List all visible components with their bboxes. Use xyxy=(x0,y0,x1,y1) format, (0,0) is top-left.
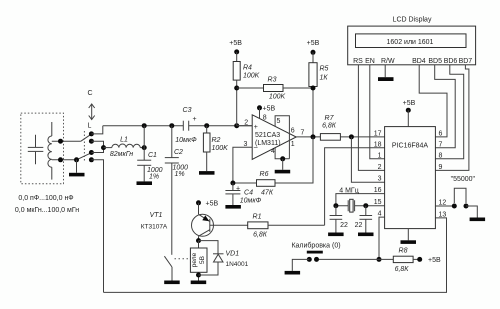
terminal +5V VT1 xyxy=(196,200,201,205)
mechanical link dashed SA1 xyxy=(83,131,85,161)
node rail C2 xyxy=(169,123,174,128)
svg-text:1602 или 1601: 1602 или 1601 xyxy=(387,39,434,46)
capacitor C4 xyxy=(225,183,240,205)
ground (switch pole2) xyxy=(69,173,85,177)
svg-text:4: 4 xyxy=(271,148,275,155)
svg-text:1N4001: 1N4001 xyxy=(226,261,249,268)
button SB1 Kalibrovka xyxy=(292,251,323,271)
resistor R2 xyxy=(203,126,210,171)
wire top rail right of C3 xyxy=(189,125,253,127)
svg-text:6,8К: 6,8К xyxy=(395,266,410,273)
DUT dashed box xyxy=(21,113,64,184)
node relay bottom xyxy=(196,273,201,278)
svg-text:17: 17 xyxy=(374,130,382,137)
svg-text:C4: C4 xyxy=(244,190,253,197)
svg-text:5В: 5В xyxy=(199,256,206,264)
capacitor C5 22pF left xyxy=(330,206,343,233)
node output xyxy=(311,134,316,139)
node contact T1 xyxy=(89,131,94,136)
wire Cx to switch pole 1 xyxy=(52,140,81,142)
wire R1 to PIC pin 18 xyxy=(325,148,385,226)
wire PIC pin12 xyxy=(435,205,454,207)
svg-text:1: 1 xyxy=(378,152,382,159)
svg-text:L: L xyxy=(88,123,92,130)
ground (relay) xyxy=(191,281,207,285)
resistor R5 xyxy=(309,52,317,137)
resistor R8 xyxy=(393,256,419,262)
mechanical link dotted relay xyxy=(175,258,191,260)
capacitor C1 xyxy=(137,126,151,182)
svg-text:+5В: +5В xyxy=(307,40,320,47)
svg-text:7: 7 xyxy=(301,130,305,137)
wire bottom rail to PIC pin 13 xyxy=(104,218,447,293)
svg-text:R1: R1 xyxy=(253,214,262,221)
comparator balance pins 5,6 and gnd pins 1,4 xyxy=(275,116,289,159)
wire Lx to switch pole 2 xyxy=(52,159,77,161)
wire jumper to ground xyxy=(466,206,477,218)
svg-text:R/W: R/W xyxy=(381,58,395,65)
svg-text:C2: C2 xyxy=(174,149,183,156)
svg-text:BD7: BD7 xyxy=(459,58,473,65)
svg-text:2: 2 xyxy=(244,120,248,127)
resistor R1 xyxy=(248,222,325,229)
ground (C6) xyxy=(358,233,374,237)
svg-text:521СА3: 521СА3 xyxy=(255,132,280,139)
svg-text:3: 3 xyxy=(244,141,248,148)
node R4/R3 xyxy=(234,86,239,91)
resistor R3 xyxy=(237,85,313,92)
capacitor C3 (series) xyxy=(183,121,188,131)
node R7 right xyxy=(349,134,354,139)
wire PIC pin5 to ground xyxy=(407,229,409,241)
ground (R2) xyxy=(199,171,215,175)
wire EN to PIC pin 1 xyxy=(370,65,385,159)
svg-text:R5: R5 xyxy=(320,66,329,73)
inductor Lx (device under test) xyxy=(48,122,52,180)
svg-text:R3: R3 xyxy=(268,77,277,84)
ground (PIC pin5) xyxy=(401,240,417,244)
svg-text:12: 12 xyxy=(439,200,447,207)
svg-text:1%: 1% xyxy=(149,174,159,181)
wire T1 to top rail xyxy=(91,126,102,134)
svg-text:8: 8 xyxy=(439,152,443,159)
wire feedback output to R6 xyxy=(275,137,313,183)
switch SA1 pole1 arm xyxy=(81,134,91,141)
wire pin2 input xyxy=(237,125,253,127)
svg-text:7: 7 xyxy=(439,141,443,148)
node VT1 collector xyxy=(196,238,201,243)
svg-text:"55000": "55000" xyxy=(451,176,476,183)
wire T4 to bottom rail xyxy=(91,160,103,293)
wire crystal row to PIC pin 15 xyxy=(336,205,385,207)
svg-text:100K: 100K xyxy=(269,94,286,101)
svg-text:+5В: +5В xyxy=(403,100,416,107)
svg-text:1К: 1К xyxy=(320,75,329,82)
svg-text:+5В: +5В xyxy=(229,40,242,47)
svg-text:R6: R6 xyxy=(260,171,269,178)
ground (jumper) xyxy=(470,218,486,222)
wire VT1 base to R1 xyxy=(210,224,248,226)
svg-text:22: 22 xyxy=(355,222,363,229)
svg-text:+: + xyxy=(193,116,197,123)
wire R7 node to PIC pin3 xyxy=(351,137,384,182)
svg-text:C3: C3 xyxy=(183,107,192,114)
svg-text:5: 5 xyxy=(277,118,281,125)
resistor R6 xyxy=(233,180,275,187)
node D (L1 left) xyxy=(101,145,106,150)
svg-text:8: 8 xyxy=(263,115,267,122)
svg-text:EN: EN xyxy=(365,58,375,65)
svg-text:КТ3107А: КТ3107А xyxy=(141,224,168,231)
wire pins1,4 to ground xyxy=(282,159,284,170)
capacitor C2 xyxy=(165,126,179,255)
terminal +5V R4 xyxy=(234,49,239,54)
svg-text:BD4: BD4 xyxy=(412,58,426,65)
node crystal left xyxy=(333,203,338,208)
capacitor C6 22pF right xyxy=(360,206,373,233)
wire R/W to ground xyxy=(384,65,386,77)
svg-text:15: 15 xyxy=(374,199,382,206)
svg-text:VD1: VD1 xyxy=(226,251,240,258)
svg-text:R8: R8 xyxy=(399,247,408,254)
label relay (rotated) xyxy=(191,252,206,267)
svg-text:реле: реле xyxy=(191,252,198,267)
wire T3 to node D xyxy=(91,148,103,153)
svg-text:6,8К: 6,8К xyxy=(322,123,337,130)
svg-text:6,8К: 6,8К xyxy=(253,232,268,239)
svg-text:18: 18 xyxy=(374,141,382,148)
node rail comparator input xyxy=(234,123,239,128)
node L1 right xyxy=(142,145,147,150)
svg-text:Калибровка (0): Калибровка (0) xyxy=(291,241,340,249)
svg-text:R4: R4 xyxy=(243,65,252,72)
IC U2 PIC16F84A xyxy=(385,127,436,229)
node contact T4 xyxy=(89,157,94,162)
wire BD7 to PIC pin 9 xyxy=(435,65,469,171)
svg-text:3: 3 xyxy=(378,176,382,183)
terminal +5V R8 xyxy=(417,257,422,262)
svg-text:2: 2 xyxy=(378,164,382,171)
svg-text:+5В: +5В xyxy=(428,257,441,264)
ground (C4) xyxy=(225,205,241,209)
svg-text:6: 6 xyxy=(291,127,295,134)
ground (button) xyxy=(285,271,301,275)
node contact T2 xyxy=(89,139,94,144)
node contact T3 xyxy=(89,150,94,155)
svg-text:LCD Display: LCD Display xyxy=(393,17,432,24)
svg-text:+: + xyxy=(254,124,258,131)
switch SA1 pole2 arm xyxy=(77,153,92,160)
svg-text:+5В: +5В xyxy=(263,106,276,113)
node rail R2 xyxy=(204,123,209,128)
wire T2 to node D xyxy=(91,141,103,147)
wire RS to PIC pin 2 xyxy=(358,65,384,171)
terminal +5V R5 xyxy=(311,50,316,55)
svg-text:6: 6 xyxy=(439,130,443,137)
svg-text:82мкГн: 82мкГн xyxy=(110,151,133,158)
resistor R7 xyxy=(320,134,384,141)
wire pin3 input xyxy=(233,147,252,183)
transistor VT1 emitter arrow xyxy=(202,215,209,221)
wire button to R8 xyxy=(317,258,394,260)
svg-text:BD5: BD5 xyxy=(428,58,442,65)
svg-text:16: 16 xyxy=(374,187,382,194)
svg-text:(LM311): (LM311) xyxy=(255,140,281,147)
resistor R4 xyxy=(233,52,240,126)
wire top rail left xyxy=(103,125,184,127)
capacitor Cx (device under test) xyxy=(28,135,44,165)
svg-text:PIC16F84A: PIC16F84A xyxy=(392,142,429,149)
ground (C5) xyxy=(328,233,344,237)
wire BD6 to PIC pin 8 xyxy=(435,65,463,159)
node Lx xyxy=(58,157,63,162)
svg-text:0,0 пФ...100,0 нФ: 0,0 пФ...100,0 нФ xyxy=(18,195,73,202)
svg-text:VT1: VT1 xyxy=(150,212,163,219)
node pins 1,4 xyxy=(280,156,285,161)
ground (R/W) xyxy=(378,77,394,81)
svg-text:L1: L1 xyxy=(120,137,128,144)
crystal ZQ1 4MHz xyxy=(348,199,354,212)
svg-text:1: 1 xyxy=(291,141,295,148)
ground (relay switch) xyxy=(164,281,180,285)
svg-text:13: 13 xyxy=(439,211,447,218)
svg-text:47К: 47К xyxy=(261,190,274,197)
svg-text:100K: 100K xyxy=(243,73,260,80)
svg-text:22: 22 xyxy=(340,222,348,229)
relay K1 xyxy=(190,241,207,281)
node Cx xyxy=(58,139,63,144)
node C4/R6/pin3 xyxy=(230,181,235,186)
relay switch contact xyxy=(164,256,172,280)
svg-text:+5В: +5В xyxy=(206,201,219,208)
wire BD4 to PIC pin 6 xyxy=(419,65,447,137)
node pole2 common xyxy=(74,157,79,162)
svg-text:10мкФ: 10мкФ xyxy=(175,137,197,144)
ground (comparator) xyxy=(275,170,291,174)
terminal +5V PIC pin14 xyxy=(406,108,411,113)
node rail C1 xyxy=(142,123,147,128)
node MCLR xyxy=(377,257,382,262)
wire PIC pin16 to crystal xyxy=(336,194,385,206)
svg-text:R2: R2 xyxy=(212,137,221,144)
op-amp U1 comparator 521CA3 xyxy=(252,115,296,160)
inductor L1 xyxy=(104,144,145,148)
svg-text:10мкФ: 10мкФ xyxy=(240,198,262,205)
svg-text:4 МГц: 4 МГц xyxy=(339,187,358,194)
wire pole2 common to ground xyxy=(76,160,78,173)
wire pin14 xyxy=(407,110,409,126)
svg-text:100K: 100K xyxy=(212,145,229,152)
svg-text:1%: 1% xyxy=(175,171,185,178)
svg-text:R7: R7 xyxy=(325,115,335,122)
svg-text:C1: C1 xyxy=(148,152,157,159)
transistor VT1 KT3107A xyxy=(192,203,214,241)
svg-text:+: + xyxy=(236,185,240,192)
svg-text:9: 9 xyxy=(439,164,443,171)
svg-text:BD6: BD6 xyxy=(444,58,458,65)
node R5/R3 xyxy=(311,86,316,91)
wire pin8 xyxy=(259,108,261,119)
C/L selector arrow xyxy=(89,104,95,120)
wire PIC pin4 MCLR xyxy=(379,217,385,259)
terminal +5V pin8 xyxy=(257,105,262,110)
jumper 55000 xyxy=(452,188,469,208)
svg-text:C: C xyxy=(87,90,92,97)
LCD display box xyxy=(348,26,476,65)
ground (C1) xyxy=(137,181,153,185)
node crystal right xyxy=(363,203,368,208)
wire BD5 to PIC pin 7 xyxy=(435,65,456,148)
svg-text:4: 4 xyxy=(378,211,382,218)
svg-text:0,0 мкГн...100,0 мГн: 0,0 мкГн...100,0 мГн xyxy=(15,207,79,214)
svg-text:RS: RS xyxy=(353,58,363,65)
diode VD1 1N4001 xyxy=(199,241,224,275)
wire comparator output xyxy=(296,136,320,138)
